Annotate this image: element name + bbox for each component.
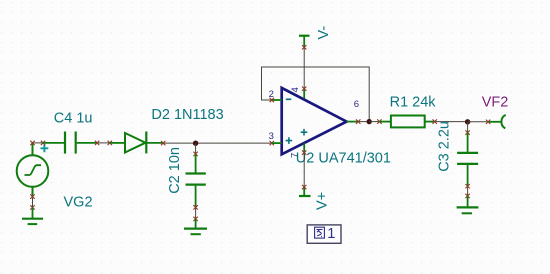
wire node A down to C2: [193, 143, 197, 156]
capacitor C3: [457, 133, 478, 187]
wire C2 to ground: [193, 205, 197, 221]
terminal V+: [299, 187, 311, 196]
svg-text:D2 1N1183: D2 1N1183: [151, 107, 223, 123]
terminal V-: [299, 36, 310, 48]
wire VG2 bottom to ground: [30, 194, 34, 209]
wire pin6 to output node B: [356, 119, 369, 123]
resistor R1: [379, 116, 434, 128]
svg-text:4: 4: [290, 87, 301, 92]
wire V- to pin 4: [302, 45, 306, 91]
svg-text:C2 10n: C2 10n: [167, 147, 183, 194]
wire VG2 top to C4: [30, 141, 45, 145]
ground below VG2: [22, 207, 43, 224]
output pin VF2: [489, 115, 506, 128]
positive supply plus mark: [301, 129, 308, 136]
diode D2: [110, 132, 163, 154]
svg-text:1: 1: [327, 226, 335, 242]
ground below C2: [184, 219, 207, 234]
capacitor C2: [186, 154, 206, 207]
svg-text:3: 3: [269, 131, 274, 142]
capacitor C4: [43, 132, 97, 154]
pin 3 stub: [272, 142, 282, 144]
pin 4 stub: [303, 89, 305, 99]
node C junction dot: [465, 119, 470, 124]
svg-text:V-: V-: [316, 26, 332, 40]
svg-text:7: 7: [290, 153, 301, 158]
pin 7 stub: [303, 144, 305, 153]
glyph 图 drawn: [315, 227, 325, 238]
svg-text:VG2: VG2: [64, 195, 93, 211]
polarity + of VG2: [41, 144, 49, 152]
svg-text:6: 6: [354, 99, 359, 110]
wire pin 7 to V+: [302, 150, 306, 189]
svg-text:R1 24k: R1 24k: [390, 95, 437, 111]
figure label box 图1: [307, 225, 341, 243]
pin 6 stub: [347, 121, 359, 123]
non-inverting input plus mark: [286, 137, 293, 144]
wire C3 to ground: [465, 184, 469, 198]
svg-text:C4 1u: C4 1u: [54, 111, 93, 127]
inverting input minus mark: [286, 98, 292, 100]
op-amp U2: [272, 88, 358, 154]
svg-text:U2 UA741/301: U2 UA741/301: [296, 150, 391, 166]
wire D2 to node A and op-amp pin3: [161, 141, 274, 145]
wire C4 to D2: [95, 141, 112, 145]
wire node B to R1: [369, 119, 381, 123]
wire R1 to node C: [433, 119, 468, 123]
wire node C down to C3: [465, 122, 469, 135]
svg-text:V+: V+: [315, 192, 331, 210]
wire node C to VF2: [468, 120, 491, 124]
pin 2 stub: [272, 99, 282, 101]
wire feedback loop pin2 to output node: [262, 67, 370, 122]
node A junction dot: [193, 141, 198, 146]
node B junction dot: [367, 119, 372, 124]
svg-text:C3 2.2u: C3 2.2u: [437, 121, 453, 172]
generator VG2: [17, 143, 49, 197]
ground below C3: [457, 196, 479, 213]
svg-text:VF2: VF2: [482, 95, 509, 111]
